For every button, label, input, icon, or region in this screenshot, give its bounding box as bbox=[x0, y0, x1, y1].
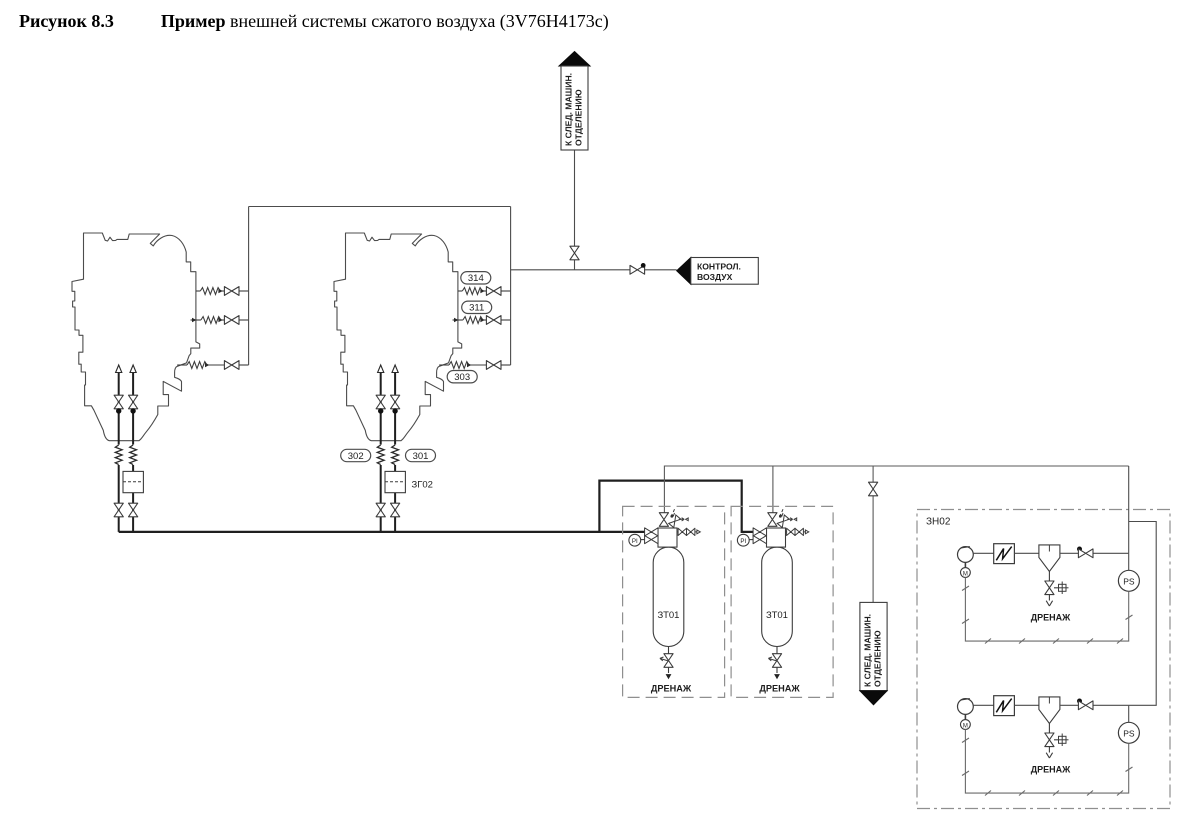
svg-text:ЗН02: ЗН02 bbox=[926, 517, 951, 528]
wire branch to tank 2 bbox=[599, 481, 753, 532]
tank ЗТ01 no.2 bbox=[731, 506, 833, 697]
label 302 bbox=[341, 449, 371, 462]
compressor unit 1 bbox=[958, 544, 1140, 644]
svg-text:301: 301 bbox=[413, 451, 429, 462]
wire top distribution bbox=[664, 466, 1128, 514]
control air box: КОНТРОЛ. ВОЗДУХ bbox=[677, 258, 759, 285]
title caption bbox=[19, 11, 609, 32]
svg-text:302: 302 bbox=[348, 451, 364, 462]
engine 1 hose rows bbox=[177, 287, 248, 370]
label 314 bbox=[461, 272, 491, 285]
engine 2 supply pipes bbox=[375, 365, 405, 532]
wire control-air branch bbox=[511, 269, 677, 271]
label 303 bbox=[447, 371, 477, 384]
wire main feed into ЗН02 bbox=[1129, 466, 1157, 705]
engine 1 outline bbox=[72, 233, 200, 441]
wire riser to next engine room bbox=[574, 150, 576, 270]
thin distribution line top bbox=[664, 466, 1128, 602]
wire manifold engine1 vertical bbox=[248, 207, 250, 366]
wire drop to next-engine-room arrow bbox=[872, 466, 874, 602]
label 301 bbox=[406, 449, 436, 462]
junction dot on control-air branch bbox=[641, 263, 646, 268]
valve on control-air branch bbox=[630, 265, 645, 274]
svg-text:К СЛЕД. МАШИН.: К СЛЕД. МАШИН. bbox=[863, 614, 873, 687]
down arrow box: К СЛЕД. МАШИН. ОТДЕЛЕНИЮ bbox=[860, 602, 887, 704]
engine 2 hose rows bbox=[439, 287, 510, 370]
svg-text:КОНТРОЛ.: КОНТРОЛ. bbox=[697, 262, 741, 272]
wire manifold engine2 vertical bbox=[510, 207, 512, 366]
compressor enclosure ЗН02 dash-dot box bbox=[917, 510, 1170, 809]
wire main bus bbox=[119, 531, 645, 533]
tank ЗТ01 no.1 bbox=[623, 506, 725, 697]
svg-text:ОТДЕЛЕНИЮ: ОТДЕЛЕНИЮ bbox=[873, 630, 883, 687]
valve on riser bbox=[570, 246, 579, 260]
manifold rectangle wires bbox=[249, 150, 677, 365]
wire drop to tank 2 bbox=[772, 466, 774, 514]
valve on drop to next engine room bbox=[869, 482, 878, 496]
engine 1 supply pipes bbox=[113, 365, 143, 532]
up arrow box: К СЛЕД. МАШИН. ОТДЕЛЕНИЮ bbox=[559, 52, 590, 151]
label 311 bbox=[462, 301, 492, 314]
svg-text:311: 311 bbox=[469, 303, 484, 314]
svg-text:ВОЗДУХ: ВОЗДУХ bbox=[697, 272, 733, 282]
svg-text:ЗГ02: ЗГ02 bbox=[412, 479, 433, 490]
thick feed bus from engines bbox=[119, 481, 754, 532]
svg-text:303: 303 bbox=[454, 372, 470, 383]
svg-text:314: 314 bbox=[468, 273, 484, 284]
engine 2 outline bbox=[334, 233, 462, 441]
svg-text:ОТДЕЛЕНИЮ: ОТДЕЛЕНИЮ bbox=[574, 89, 584, 146]
compressor unit 2 bbox=[958, 696, 1140, 796]
wire branch over to unit 2 bbox=[1129, 522, 1157, 706]
wire manifold top horizontal bbox=[249, 206, 511, 208]
svg-text:К СЛЕД. МАШИН.: К СЛЕД. МАШИН. bbox=[564, 73, 574, 146]
